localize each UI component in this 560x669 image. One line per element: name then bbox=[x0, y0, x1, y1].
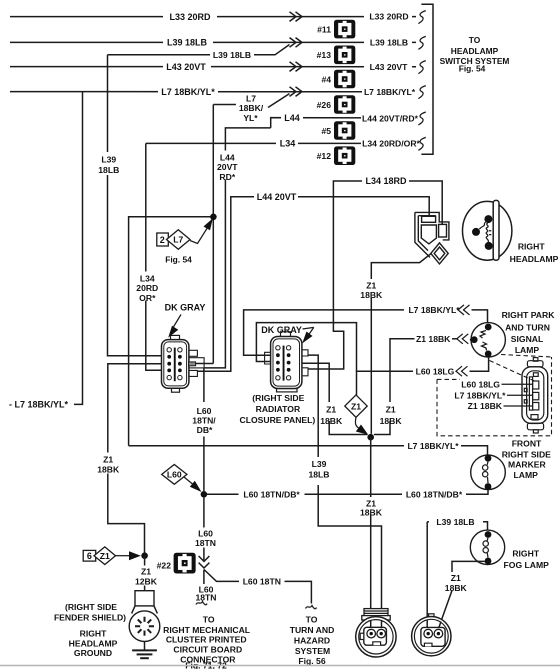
svg-text:L60: L60 bbox=[198, 529, 213, 539]
svg-text:HEADLAMP: HEADLAMP bbox=[451, 46, 499, 56]
svg-text:#13: #13 bbox=[317, 50, 332, 60]
svg-text:18LB: 18LB bbox=[98, 165, 119, 175]
splice callout 2 L7 bbox=[157, 218, 213, 264]
right headlamp connector boot bbox=[415, 212, 449, 264]
svg-text:GROUND: GROUND bbox=[74, 648, 112, 658]
svg-text:MARKER: MARKER bbox=[508, 459, 547, 469]
splice S6 (Z1) junction dot bbox=[141, 552, 148, 559]
svg-text:L34: L34 bbox=[280, 139, 296, 149]
connector cavity #5 bbox=[334, 121, 355, 140]
text right side fender shield bbox=[54, 602, 126, 623]
connector cavity #12 bbox=[334, 146, 355, 165]
headlamp connector pin cavity (top rect, L44) bbox=[422, 216, 436, 222]
wire L34 18RD from C2 to right headlamp bbox=[308, 175, 442, 369]
svg-text:LAMP: LAMP bbox=[514, 470, 539, 480]
dashed marker lamp detail box bbox=[437, 355, 552, 436]
wire L39 18LB branch (row 2b) bbox=[108, 45, 290, 61]
svg-text:RIGHT SIDE: RIGHT SIDE bbox=[502, 449, 551, 459]
break symbol row 1 bbox=[418, 11, 425, 24]
wire L43 20VT row 3 bbox=[10, 61, 416, 72]
wire L39 18LB from C2 to socket bbox=[306, 355, 382, 628]
svg-text:#22: #22 bbox=[157, 561, 172, 571]
svg-text:Z1 18BK: Z1 18BK bbox=[468, 401, 503, 411]
headlamp filaments bbox=[479, 222, 486, 230]
svg-text:L7 18BK/YL*: L7 18BK/YL* bbox=[407, 441, 459, 451]
svg-text:RIGHT MECHANICAL: RIGHT MECHANICAL bbox=[163, 625, 250, 635]
DK GRAY connector C1 (left, 10-way) bbox=[162, 335, 189, 392]
svg-text:18BK: 18BK bbox=[360, 290, 383, 300]
wire Z1 18BK main vertical from splice to socket bbox=[359, 437, 383, 648]
headlamp connector diamond cavity (Z1) bbox=[431, 243, 448, 264]
svg-text:LAMP: LAMP bbox=[515, 345, 540, 355]
svg-text:L60: L60 bbox=[197, 406, 212, 416]
svg-text:L39 18LB: L39 18LB bbox=[167, 38, 208, 48]
svg-text:OR*: OR* bbox=[139, 293, 156, 303]
svg-text:L60 18TN/DB*: L60 18TN/DB* bbox=[406, 490, 463, 500]
svg-text:#5: #5 bbox=[321, 126, 331, 136]
svg-text:Z1 18BK: Z1 18BK bbox=[416, 334, 451, 344]
svg-text:(RIGHT SIDE: (RIGHT SIDE bbox=[65, 602, 117, 612]
svg-text:L60 18LG: L60 18LG bbox=[416, 366, 455, 376]
ground symbol bbox=[132, 642, 157, 659]
svg-text:18TN: 18TN bbox=[195, 592, 216, 602]
svg-text:Z1: Z1 bbox=[386, 404, 396, 414]
svg-text:RIGHT: RIGHT bbox=[512, 549, 539, 559]
splice callout Z1 diamond bbox=[345, 371, 368, 435]
svg-text:- L7 18BK/YL*: - L7 18BK/YL* bbox=[9, 400, 69, 410]
svg-text:L7 18BK/YL*: L7 18BK/YL* bbox=[161, 87, 215, 97]
svg-text:DK GRAY: DK GRAY bbox=[261, 325, 302, 335]
svg-text:Z1: Z1 bbox=[100, 551, 110, 561]
svg-text:RADIATOR: RADIATOR bbox=[256, 404, 301, 414]
svg-text:AND TURN: AND TURN bbox=[505, 322, 550, 332]
svg-text:20RD: 20RD bbox=[136, 283, 158, 293]
svg-text:18BK: 18BK bbox=[380, 416, 403, 426]
wire L34 20RD/OR* row 6 bbox=[146, 138, 421, 149]
svg-text:L39: L39 bbox=[312, 459, 327, 469]
marker lamp connector (3-way) in dashed box bbox=[522, 358, 548, 433]
svg-text:12BK: 12BK bbox=[135, 577, 158, 587]
connector cavity #4 bbox=[334, 70, 355, 89]
wire Z1 18BK from headlamp boot down bbox=[359, 254, 431, 434]
splice S2 (2 L7) junction dot bbox=[210, 214, 217, 221]
connector cavity #13 bbox=[334, 46, 355, 65]
svg-text:TO: TO bbox=[306, 615, 318, 625]
wire L44 20VT/RD* vertical to connector bbox=[204, 128, 271, 368]
svg-text:18BK: 18BK bbox=[320, 416, 343, 426]
svg-text:RIGHT PARK: RIGHT PARK bbox=[502, 310, 556, 320]
svg-text:#12: #12 bbox=[317, 151, 332, 161]
wire L7 18BK/YL* branch vertical to splice S2 bbox=[212, 105, 214, 364]
svg-text:L7: L7 bbox=[246, 94, 256, 104]
text TO RIGHT MECHANICAL CLUSTER bbox=[163, 615, 250, 669]
svg-text:RIGHT: RIGHT bbox=[518, 241, 545, 251]
svg-text:L44: L44 bbox=[284, 113, 300, 123]
connector cavity #11 bbox=[334, 20, 355, 39]
wire L39 18LB row 2 bbox=[10, 37, 416, 48]
svg-text:6: 6 bbox=[87, 551, 92, 561]
break symbol row 2 bbox=[418, 36, 425, 49]
wire L60 18TN branch to turn and hazard bbox=[204, 570, 311, 604]
svg-text:Z1: Z1 bbox=[141, 567, 151, 577]
wire Z1 18BK from fog lamp to socket bbox=[438, 561, 484, 628]
front right side marker lamp bbox=[471, 455, 506, 490]
right headlamp bulb bbox=[463, 200, 512, 260]
svg-text:L39: L39 bbox=[101, 154, 116, 164]
svg-text:RIGHT: RIGHT bbox=[80, 629, 107, 639]
svg-text:#26: #26 bbox=[317, 100, 332, 110]
bulb socket 1 (park/turn) bbox=[356, 609, 396, 657]
svg-text:DB*: DB* bbox=[197, 425, 213, 435]
svg-text:Z1: Z1 bbox=[451, 573, 461, 583]
svg-text:L7 18BK/YL*: L7 18BK/YL* bbox=[364, 87, 416, 97]
connector cavity #26 bbox=[334, 95, 355, 114]
text RIGHT FOG LAMP bbox=[504, 549, 550, 571]
svg-text:Z1: Z1 bbox=[326, 404, 336, 414]
svg-text:L7 18BK/YL*: L7 18BK/YL* bbox=[454, 391, 506, 401]
text FRONT RIGHT SIDE MARKER LAMP bbox=[502, 438, 551, 480]
splice S-L60 junction dot bbox=[201, 491, 208, 498]
svg-text:L44 20VT: L44 20VT bbox=[257, 192, 297, 202]
wire L7 stub from splice vertical into C1 pin bbox=[196, 363, 214, 365]
connector cavity #22 bbox=[174, 553, 196, 574]
splice callout 6 Z1 bbox=[83, 547, 141, 565]
svg-text:L60 18TN/DB*: L60 18TN/DB* bbox=[243, 490, 300, 500]
wire L7 18BK/YL* branch (row 4b) to splice bbox=[213, 94, 289, 123]
svg-text:FRONT: FRONT bbox=[512, 438, 542, 448]
wire L39 18LB vertical to connector pin bbox=[96, 55, 169, 356]
connector chevrons row 1 bbox=[290, 12, 303, 22]
wire L7 18BK/YL* row 4 bbox=[10, 86, 416, 98]
wire Z1 12BK to headlamp ground bbox=[133, 556, 158, 592]
text right side radiator closure panel bbox=[240, 393, 316, 425]
wire L7 18BK/YL* left reference tag bbox=[9, 92, 83, 410]
wire splice horizontal to side marker branch bbox=[129, 217, 214, 446]
right headlamp ground bulb bbox=[129, 591, 160, 642]
svg-text:L60 18TN: L60 18TN bbox=[243, 577, 281, 587]
svg-text:(RIGHT SIDE: (RIGHT SIDE bbox=[252, 393, 304, 403]
wire Z1 18BK from park/turn lamp to splice bbox=[374, 334, 474, 435]
wire L60 18TN below splice with inline connector bbox=[193, 498, 218, 560]
marker connector pin labels bbox=[454, 380, 532, 412]
svg-text:HEADLAMP: HEADLAMP bbox=[510, 254, 559, 264]
svg-text:FENDER SHIELD): FENDER SHIELD) bbox=[54, 613, 126, 623]
text RIGHT PARK AND TURN SIGNAL LAMP bbox=[502, 310, 556, 355]
svg-text:#4: #4 bbox=[321, 74, 331, 84]
svg-text:Fig. 56: Fig. 56 bbox=[298, 656, 325, 666]
svg-text:18BK: 18BK bbox=[97, 464, 120, 474]
wire L60 18LG from C2 to park/turn lamp bbox=[256, 323, 488, 377]
svg-text:L44 20VT/RD*: L44 20VT/RD* bbox=[362, 113, 419, 123]
svg-text:YL*: YL* bbox=[243, 113, 258, 123]
connector C1 pin (gray cavity) bbox=[189, 362, 196, 366]
wire L7 18BK/YL* to front side marker lamp bbox=[129, 440, 488, 455]
svg-text:Z1: Z1 bbox=[351, 401, 361, 411]
headlamp terminal dots bbox=[484, 215, 492, 223]
connector chevrons row 3 bbox=[290, 62, 303, 72]
svg-text:18LB: 18LB bbox=[308, 470, 329, 480]
wire L60 vertical hanging from C1 tab bbox=[203, 368, 205, 402]
svg-text:18BK: 18BK bbox=[445, 583, 468, 593]
svg-text:Z1: Z1 bbox=[103, 454, 113, 464]
inline connector symbol bbox=[199, 556, 210, 568]
wire L7 18BK/YL* from C2 to park/turn lamp bbox=[244, 305, 488, 355]
svg-text:18TN/: 18TN/ bbox=[192, 415, 216, 425]
svg-text:HEADLAMP: HEADLAMP bbox=[69, 639, 118, 649]
text RIGHT HEADLAMP bbox=[510, 241, 559, 264]
wire L60 18TN to cluster connector bbox=[195, 570, 216, 603]
svg-text:L60: L60 bbox=[167, 470, 182, 480]
svg-text:L34: L34 bbox=[140, 274, 155, 284]
svg-text:L34 20RD/OR*: L34 20RD/OR* bbox=[362, 139, 420, 149]
wire L34 20RD/OR* vertical to connector bbox=[133, 143, 170, 370]
wire L44 20VT from C1 to right headlamp bbox=[197, 191, 429, 371]
wire L44 20VT/RD* row 5 bbox=[271, 112, 419, 128]
DK GRAY connector C1 right-side tabs bbox=[189, 350, 204, 376]
connector chevrons row 4 bbox=[290, 87, 303, 97]
label DK GRAY (C2) with arrow bbox=[261, 325, 314, 344]
right park and turn signal lamp bbox=[471, 323, 506, 358]
DK GRAY connector C2 (right, 10-way) bbox=[271, 332, 302, 392]
svg-text:L7 18BK/YL*: L7 18BK/YL* bbox=[408, 305, 460, 315]
svg-text:SYSTEM: SYSTEM bbox=[295, 646, 330, 656]
text TO TURN AND HAZARD SYSTEM bbox=[290, 615, 335, 666]
svg-text:CIRCUIT BOARD: CIRCUIT BOARD bbox=[173, 645, 242, 655]
wire Z1 18BK from C2 middle pin to splice bbox=[302, 363, 368, 434]
svg-text:20VT: 20VT bbox=[217, 162, 238, 172]
bracket to headlamp switch system bbox=[421, 4, 433, 154]
bulb socket 2 (fog) bbox=[412, 614, 451, 656]
wire Z1 18BK from connector pin to ground splice bbox=[95, 364, 169, 556]
svg-text:L39 18LB: L39 18LB bbox=[436, 517, 474, 527]
svg-text:TURN AND: TURN AND bbox=[290, 625, 335, 635]
break symbol row 5 bbox=[418, 112, 425, 125]
break symbol to turn and hazard bbox=[306, 606, 317, 609]
svg-text:DK GRAY: DK GRAY bbox=[165, 302, 206, 312]
svg-text:2: 2 bbox=[160, 235, 165, 245]
svg-text:SIGNAL: SIGNAL bbox=[511, 334, 543, 344]
svg-text:CLOSURE PANEL): CLOSURE PANEL) bbox=[240, 415, 316, 425]
right fog lamp bbox=[470, 530, 504, 564]
splice SZ1 junction dot bbox=[367, 434, 374, 441]
svg-text:18BK/: 18BK/ bbox=[239, 103, 264, 113]
svg-text:L43 20VT: L43 20VT bbox=[166, 62, 206, 72]
text right headlamp ground bbox=[69, 629, 118, 659]
svg-text:L39 18LB: L39 18LB bbox=[213, 50, 251, 60]
svg-text:HAZARD: HAZARD bbox=[294, 635, 330, 645]
wire L33 20RD row 1 bbox=[10, 11, 416, 22]
svg-text:Fig. 54: Fig. 54 bbox=[459, 64, 486, 74]
svg-text:Z1: Z1 bbox=[366, 280, 376, 290]
svg-text:RD*: RD* bbox=[219, 172, 235, 182]
svg-text:L7: L7 bbox=[173, 235, 183, 245]
headlamp connector pin cavity (house pentagon) bbox=[421, 225, 436, 244]
svg-text:L39 18LB: L39 18LB bbox=[370, 38, 408, 48]
svg-text:L43 20VT: L43 20VT bbox=[370, 62, 408, 72]
svg-text:18BK: 18BK bbox=[360, 507, 383, 517]
wire L39 18LB fog lamp to socket bbox=[427, 517, 487, 629]
DK GRAY connector C2 side tabs bbox=[265, 350, 308, 376]
splice callout L60 diamond bbox=[162, 465, 202, 493]
label DK GRAY (C1) with arrow bbox=[165, 302, 206, 337]
break symbol row 6 bbox=[418, 137, 425, 150]
svg-text:Fig. 54: Fig. 54 bbox=[165, 255, 192, 265]
svg-text:TO: TO bbox=[203, 615, 215, 625]
text TO HEADLAMP SWITCH SYSTEM bbox=[440, 35, 510, 74]
svg-text:CLUSTER PRINTED: CLUSTER PRINTED bbox=[166, 635, 247, 645]
page edge line bbox=[0, 665, 560, 667]
svg-text:L33 20RD: L33 20RD bbox=[369, 12, 408, 22]
svg-text:TO: TO bbox=[469, 35, 481, 45]
connector chevrons row 2 bbox=[290, 38, 303, 48]
svg-text:FOG LAMP: FOG LAMP bbox=[504, 560, 550, 570]
wire L60 18TN/DB* from C1 to splice to marker lamp bbox=[190, 404, 488, 500]
break symbol to cluster bbox=[196, 602, 207, 605]
break symbol row 3 bbox=[418, 61, 425, 74]
svg-text:L44: L44 bbox=[220, 153, 235, 163]
headlamp connector pin cavity (right rect, L34) bbox=[439, 224, 447, 237]
svg-text:#11: #11 bbox=[317, 25, 331, 35]
svg-text:L60 18LG: L60 18LG bbox=[461, 380, 500, 390]
svg-text:18TN: 18TN bbox=[195, 538, 216, 548]
break symbol row 4 bbox=[418, 86, 425, 99]
svg-text:L33 20RD: L33 20RD bbox=[169, 12, 211, 22]
svg-text:L34 18RD: L34 18RD bbox=[365, 176, 407, 186]
